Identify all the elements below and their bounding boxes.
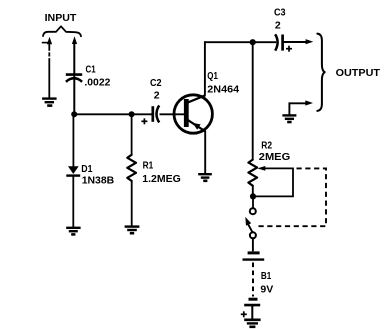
- svg-text:1N38B: 1N38B: [82, 174, 115, 186]
- input left arrowhead: [47, 37, 52, 44]
- capacitor C2: [153, 105, 159, 122]
- ground (Q1 emitter): [198, 174, 212, 181]
- wire R1 top: [131, 114, 133, 155]
- node junction dot R1: [129, 111, 135, 117]
- wire emitter down: [204, 131, 206, 174]
- wire R1 bottom: [131, 181, 133, 226]
- ground (input left): [42, 99, 57, 106]
- ground (output): [282, 115, 296, 122]
- resistor R2: [248, 160, 257, 186]
- output bottom arrowhead: [305, 100, 313, 105]
- label C3 plus: [286, 46, 292, 52]
- ground (D1): [66, 228, 80, 235]
- svg-text:OUTPUT: OUTPUT: [336, 67, 381, 79]
- wire switch to battery: [252, 238, 254, 251]
- input brace: [43, 26, 81, 36]
- wire D1 top: [72, 114, 74, 166]
- svg-text:2: 2: [154, 90, 160, 102]
- capacitor C3: [275, 34, 282, 50]
- svg-text:C1: C1: [86, 63, 96, 75]
- diode D1: [66, 166, 80, 175]
- wiper arrowhead: [257, 166, 265, 171]
- wire R2 top drop: [252, 42, 254, 160]
- wire R2 bottom: [252, 186, 254, 197]
- wire switch top stub: [252, 199, 254, 209]
- node junction dot R2 bottom: [250, 193, 256, 199]
- svg-text:2: 2: [275, 20, 281, 32]
- label battery plus: [241, 311, 247, 317]
- wire input left terminal: [48, 44, 50, 98]
- svg-text:C3: C3: [274, 7, 286, 19]
- svg-text:D1: D1: [81, 163, 92, 175]
- transistor Q1: [174, 95, 212, 133]
- input left tick: [42, 42, 49, 44]
- switch contact bottom: [250, 232, 256, 238]
- svg-text:.0022: .0022: [84, 76, 110, 88]
- ground (R1): [125, 227, 140, 234]
- svg-text:2MEG: 2MEG: [259, 151, 290, 163]
- node junction dot left: [71, 111, 77, 117]
- wire top rail: [204, 41, 276, 43]
- ground (battery): [244, 320, 260, 327]
- wire D1 bottom: [72, 176, 74, 227]
- switch blade: [248, 224, 253, 233]
- svg-text:B1: B1: [261, 270, 272, 282]
- wire battery bottom: [251, 306, 253, 320]
- svg-text:1.2MEG: 1.2MEG: [142, 173, 181, 185]
- wire main node horizontal: [74, 113, 152, 115]
- output top arrowhead: [306, 39, 314, 44]
- switch contact top: [250, 208, 256, 214]
- svg-text:9V: 9V: [260, 284, 273, 296]
- svg-text:Q1: Q1: [207, 70, 218, 82]
- svg-text:2N464: 2N464: [207, 83, 239, 95]
- switch blade arrowhead: [245, 217, 251, 226]
- label C2 plus: [141, 118, 147, 124]
- svg-text:C2: C2: [150, 77, 162, 89]
- wire input right terminal: [73, 44, 75, 114]
- wire C3 to output: [284, 41, 308, 43]
- resistor R1: [127, 155, 136, 181]
- svg-text:INPUT: INPUT: [45, 12, 77, 24]
- svg-text:R2: R2: [261, 140, 272, 152]
- wire collector up: [204, 41, 206, 96]
- battery B1: [243, 253, 265, 305]
- wire C2 to base: [160, 113, 185, 115]
- wire output bottom terminal: [289, 103, 306, 114]
- svg-text:R1: R1: [143, 160, 154, 172]
- node junction dot rail: [250, 39, 256, 45]
- output brace: [317, 34, 325, 111]
- capacitor C1: [66, 75, 82, 82]
- wire R2 wiper arm: [253, 168, 293, 196]
- input right arrowhead: [72, 36, 77, 44]
- dashed link (pot to switch): [258, 168, 327, 226]
